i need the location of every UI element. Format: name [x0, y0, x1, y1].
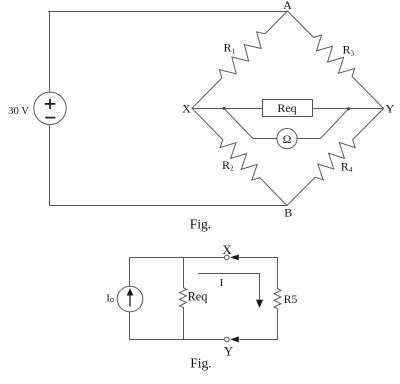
svg-text:Fig.: Fig. — [190, 355, 211, 370]
svg-text:A: A — [283, 0, 292, 12]
svg-text:R1: R1 — [224, 41, 236, 56]
wire top (X node to right corner) — [240, 257, 278, 259]
svg-text:Ω: Ω — [283, 134, 292, 146]
resistor R5 — [274, 258, 281, 340]
resistor Req (bottom figure) — [180, 258, 187, 340]
resistor R4 (Y to B) — [287, 109, 384, 206]
arrow into node X — [230, 254, 239, 260]
wire top (source to node A) — [49, 11, 288, 13]
resistor Req (box) — [263, 100, 313, 117]
svg-text:Req: Req — [277, 101, 296, 115]
wire left lower (source - to bottom) — [49, 125, 51, 206]
svg-text:B: B — [284, 206, 292, 220]
svg-text:R4: R4 — [341, 159, 353, 174]
arrow into node Y — [230, 336, 239, 342]
galvanometer G (ohmmeter) — [277, 129, 297, 149]
junction right (galvanometer tap) — [347, 107, 350, 110]
junction left (galvanometer tap) — [223, 107, 226, 110]
wire left upper (top to source +) — [49, 12, 51, 93]
wire junction to galvanometer — [224, 109, 277, 139]
node Y terminal (open circle) — [225, 337, 230, 342]
wire Req box to Y — [313, 108, 384, 110]
wire left branch lower (Io to bottom) — [129, 312, 131, 340]
node X terminal (open circle) — [225, 255, 230, 260]
svg-text:Y: Y — [386, 102, 395, 116]
svg-text:I: I — [220, 277, 224, 289]
wire X to Req box — [192, 108, 263, 110]
svg-text:R5: R5 — [284, 293, 298, 306]
svg-text:Io: Io — [106, 292, 114, 304]
svg-text:X: X — [182, 102, 191, 116]
svg-text:Fig.: Fig. — [190, 216, 211, 231]
wire galvanometer to right junction — [297, 109, 348, 139]
wire left branch upper (Io to top) — [129, 258, 131, 287]
wire top (left corner to X node) — [130, 257, 225, 259]
svg-text:30 V: 30 V — [8, 106, 29, 117]
wire bottom (Y node to right corner) — [240, 339, 278, 341]
svg-text:R2: R2 — [222, 158, 234, 173]
wire bottom (left corner to Y node) — [130, 339, 225, 341]
resistor R2 (X to B) — [192, 108, 287, 205]
voltage source V1 30V — [34, 92, 66, 124]
wire bottom (source to node B) — [50, 205, 288, 207]
resistor R3 (A to Y) — [288, 11, 384, 109]
current arrow I — [199, 274, 264, 309]
svg-text:Req: Req — [188, 290, 208, 304]
svg-text:Y: Y — [224, 345, 233, 359]
resistor R1 (A to X) — [192, 11, 288, 108]
current source Io — [117, 286, 143, 312]
svg-text:R3: R3 — [343, 43, 355, 58]
svg-text:X: X — [222, 243, 231, 257]
